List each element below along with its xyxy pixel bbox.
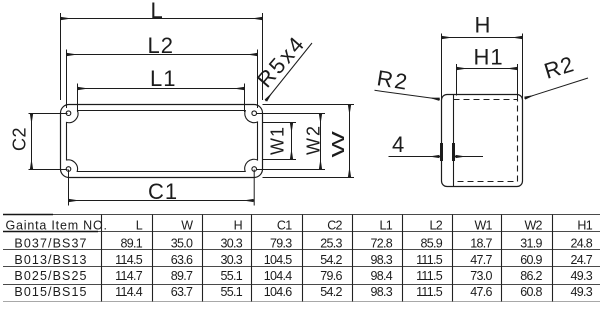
- svg-text:4: 4: [392, 132, 404, 157]
- svg-text:W: W: [328, 130, 348, 157]
- svg-text:C1: C1: [148, 179, 178, 204]
- svg-text:114.7: 114.7: [115, 269, 143, 283]
- svg-text:54.2: 54.2: [320, 253, 342, 267]
- svg-text:114.5: 114.5: [115, 253, 143, 267]
- svg-text:R2: R2: [541, 51, 577, 84]
- svg-text:86.2: 86.2: [520, 269, 542, 283]
- table grid vertical lines: [102, 215, 553, 302]
- svg-text:31.9: 31.9: [520, 236, 542, 250]
- svg-text:B025/BS25: B025/BS25: [14, 269, 87, 283]
- side view outer outline: [442, 95, 523, 187]
- W1 extension lines: [263, 123, 297, 160]
- svg-text:98.4: 98.4: [370, 269, 392, 283]
- svg-text:60.8: 60.8: [520, 285, 542, 299]
- dimension C1 extension lines: [69, 170, 255, 206]
- dimension H line: [442, 37, 523, 39]
- dimension L extension lines: [61, 13, 263, 100]
- svg-text:B015/BS15: B015/BS15: [14, 285, 87, 299]
- svg-text:H: H: [475, 13, 491, 38]
- svg-text:L2: L2: [429, 219, 442, 233]
- screw hole bottom-left: [66, 167, 71, 172]
- svg-text:111.5: 111.5: [416, 269, 443, 283]
- svg-text:L1: L1: [150, 66, 176, 91]
- svg-text:49.3: 49.3: [570, 285, 592, 299]
- svg-text:W2: W2: [304, 124, 324, 155]
- svg-text:35.0: 35.0: [171, 236, 193, 250]
- svg-text:B037/BS37: B037/BS37: [14, 236, 87, 250]
- table row 4: [14, 285, 592, 299]
- W2 extension lines: [256, 114, 325, 170]
- svg-text:W1: W1: [268, 126, 288, 155]
- svg-text:111.5: 111.5: [416, 253, 443, 267]
- svg-text:W1: W1: [474, 219, 492, 233]
- svg-text:L2: L2: [148, 33, 174, 58]
- svg-text:H: H: [234, 219, 243, 233]
- table top dark segment left: [3, 214, 53, 216]
- svg-text:24.8: 24.8: [570, 236, 592, 250]
- side view left wall inner line: [453, 95, 455, 187]
- svg-text:H1: H1: [474, 45, 504, 70]
- svg-text:73.0: 73.0: [470, 269, 492, 283]
- dimension L2 line: [67, 54, 258, 56]
- leader R2 right: [524, 78, 588, 98]
- side view dashed inner lid line: [454, 100, 518, 182]
- dimension L1 line: [78, 88, 245, 90]
- dimension C2 extension lines: [29, 114, 68, 170]
- svg-text:79.3: 79.3: [270, 236, 292, 250]
- dimension H extension lines: [442, 34, 523, 102]
- table header row text: [6, 219, 593, 233]
- svg-text:63.7: 63.7: [171, 285, 193, 299]
- svg-text:79.6: 79.6: [320, 269, 342, 283]
- table row 2: [14, 253, 592, 267]
- svg-text:H1: H1: [577, 219, 592, 233]
- leader R5x4: [266, 43, 313, 101]
- svg-text:18.7: 18.7: [470, 236, 492, 250]
- svg-text:W: W: [181, 219, 193, 233]
- dimension 4 left arrow line: [389, 156, 441, 158]
- svg-text:L: L: [136, 219, 143, 233]
- svg-text:C1: C1: [277, 219, 292, 233]
- svg-text:54.2: 54.2: [320, 285, 342, 299]
- leader R2 left: [375, 90, 441, 99]
- svg-text:89.7: 89.7: [171, 269, 193, 283]
- table header dark underline left: [3, 231, 98, 233]
- dimension C2 line: [31, 114, 33, 170]
- svg-text:47.6: 47.6: [470, 285, 492, 299]
- svg-text:89.1: 89.1: [120, 236, 142, 250]
- svg-text:111.5: 111.5: [416, 285, 443, 299]
- svg-text:B013/BS13: B013/BS13: [14, 253, 87, 267]
- table bottom faint line: [3, 301, 600, 303]
- svg-text:L1: L1: [379, 219, 392, 233]
- dimension L line: [61, 18, 263, 20]
- svg-text:104.4: 104.4: [264, 269, 293, 283]
- dimension W1 line: [291, 123, 293, 160]
- side view flange bump inner: [452, 143, 455, 161]
- svg-text:R5x4: R5x4: [252, 30, 310, 92]
- svg-text:98.3: 98.3: [370, 253, 392, 267]
- side view flange bump outer: [440, 143, 443, 161]
- dimension W2 line: [320, 114, 322, 170]
- svg-text:85.9: 85.9: [420, 236, 442, 250]
- svg-text:L: L: [151, 0, 163, 23]
- svg-text:30.3: 30.3: [220, 236, 242, 250]
- screw hole top-left: [66, 111, 71, 116]
- svg-text:C2: C2: [327, 219, 342, 233]
- dimension H1 line: [457, 68, 518, 70]
- svg-text:60.9: 60.9: [520, 253, 542, 267]
- screw hole bottom-right: [252, 167, 257, 172]
- svg-text:72.8: 72.8: [370, 236, 392, 250]
- svg-text:55.1: 55.1: [220, 285, 242, 299]
- svg-text:55.1: 55.1: [220, 269, 242, 283]
- svg-text:R2: R2: [375, 65, 411, 95]
- svg-text:49.3: 49.3: [570, 269, 592, 283]
- table row 1: [14, 236, 592, 250]
- table row 3: [14, 269, 592, 283]
- W extension lines right: [263, 105, 355, 178]
- svg-text:98.3: 98.3: [370, 285, 392, 299]
- table grid horizontal lines: [3, 215, 600, 285]
- dimension C1 line: [69, 200, 255, 202]
- dimension L2 extension lines: [67, 50, 258, 109]
- dimension H1 extension lines: [457, 64, 518, 99]
- svg-text:C2: C2: [10, 127, 30, 151]
- svg-text:W2: W2: [524, 219, 542, 233]
- svg-text:24.7: 24.7: [570, 253, 592, 267]
- svg-text:104.6: 104.6: [264, 285, 293, 299]
- dimension W line: [349, 105, 351, 178]
- svg-text:63.6: 63.6: [171, 253, 193, 267]
- dimension 4 right arrow line: [455, 156, 483, 158]
- svg-text:114.4: 114.4: [115, 285, 143, 299]
- svg-text:Gainta Item NO.: Gainta Item NO.: [6, 219, 108, 233]
- top view inner wall outline with corner bosses: [67, 111, 258, 172]
- dimension L1 extension lines: [78, 84, 245, 113]
- svg-text:104.5: 104.5: [264, 253, 293, 267]
- svg-text:47.7: 47.7: [470, 253, 492, 267]
- svg-text:25.3: 25.3: [320, 236, 342, 250]
- svg-text:30.3: 30.3: [220, 253, 242, 267]
- screw hole top-right: [252, 111, 257, 116]
- top view outer outline: [61, 105, 263, 178]
